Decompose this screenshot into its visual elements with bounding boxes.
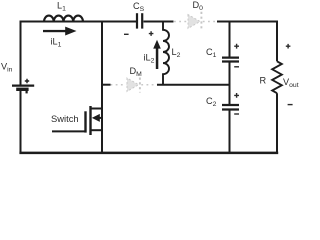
capacitor C1 top plate — [222, 56, 239, 58]
plus sign C2 — [234, 93, 239, 98]
svg-text:iL2: iL2 — [144, 53, 155, 65]
wire top rail left segment (Vin to Cs left plate) — [20, 21, 137, 23]
svg-text:R: R — [260, 76, 267, 86]
wire right rail upper (to resistor) — [276, 21, 278, 62]
diode D0 cathode dashed lead — [203, 21, 217, 23]
svg-text:Switch: Switch — [51, 113, 79, 124]
diode DM anode dashed lead — [111, 84, 127, 86]
transistor switch gate wire — [52, 130, 86, 132]
capacitor CS right plate — [141, 13, 143, 28]
current arrow iL1 — [43, 27, 77, 36]
battery Vin long plate — [12, 84, 34, 86]
diode D0 cathode bar — [200, 12, 202, 30]
wire bottom ground rail — [19, 152, 278, 155]
diode DM cathode bar — [139, 78, 141, 93]
capacitor C2 top plate — [222, 104, 239, 106]
svg-text:D0: D0 — [193, 0, 204, 12]
minus sign C1 — [234, 66, 239, 68]
inductor L1 — [44, 16, 83, 22]
svg-text:CS: CS — [133, 1, 145, 13]
transistor switch source stub — [91, 129, 103, 131]
wire switch branch vertical (top rail to ground through MOSFET) — [101, 21, 103, 153]
diode D0 triangle — [188, 15, 200, 29]
wire right rail lower (resistor to ground rail) — [276, 93, 278, 154]
transistor switch gate bar — [84, 111, 86, 132]
svg-text:Vout: Vout — [283, 77, 299, 89]
wire top rail middle segment (Cs right plate to D0 anode) — [144, 21, 174, 23]
svg-text:C1: C1 — [206, 47, 217, 59]
wire C2 to ground rail — [229, 111, 231, 155]
svg-text:DM: DM — [130, 66, 143, 78]
svg-text:iL1: iL1 — [51, 36, 62, 48]
diode DM cathode dashed lead — [141, 84, 157, 86]
plus sign CS — [149, 31, 154, 36]
capacitor CS left plate — [136, 13, 138, 28]
current arrow iL2 — [153, 40, 161, 69]
battery Vin short plate — [16, 88, 28, 91]
diode D0 anode dashed lead — [174, 21, 188, 23]
diode DM triangle — [127, 78, 139, 92]
svg-text:Vin: Vin — [1, 61, 13, 73]
transistor switch channel bar — [89, 106, 91, 135]
minus sign C2 — [234, 113, 239, 115]
svg-text:L2: L2 — [172, 47, 181, 59]
wire top rail right segment (D0 cathode to output corner) — [217, 21, 278, 23]
minus sign Vout — [288, 104, 293, 106]
transistor switch drain stub — [91, 108, 103, 110]
capacitor C2 bottom plate — [222, 108, 239, 110]
wire left rail lower (battery to ground rail) — [20, 89, 22, 154]
plus sign Vout — [286, 44, 291, 49]
svg-text:C2: C2 — [206, 96, 217, 108]
capacitor C1 bottom plate — [222, 60, 239, 62]
transistor switch body stub — [99, 117, 102, 119]
transistor switch body arrow — [92, 114, 100, 122]
plus sign C1 — [234, 44, 239, 49]
svg-text:L1: L1 — [57, 1, 66, 13]
wire C1 to middle node — [229, 63, 231, 105]
minus sign CS — [124, 33, 129, 35]
inductor L2 — [163, 21, 169, 85]
battery Vin plus sign — [25, 79, 29, 83]
wire C1/C2 branch upper — [229, 21, 231, 57]
battery Vin minus tick — [26, 91, 28, 94]
wire middle line (L2 bottom to C1/C2 node) — [157, 84, 229, 86]
wire left rail upper (top rail to battery) — [20, 21, 22, 85]
wire middle node stub (switch vertical to DM anode) — [102, 84, 111, 86]
resistor R — [272, 61, 282, 93]
